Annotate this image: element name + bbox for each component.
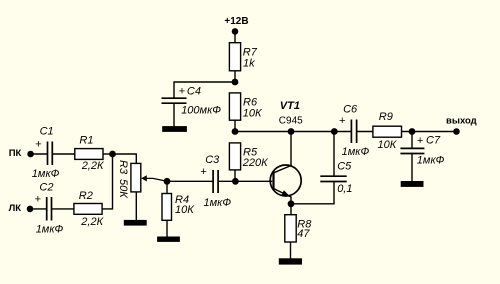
- svg-text:2,2К: 2,2К: [81, 160, 104, 172]
- wire emitter to R8: [290, 197, 292, 215]
- svg-text:ЛК: ЛК: [9, 203, 22, 214]
- svg-text:C4: C4: [187, 85, 201, 97]
- svg-text:+: +: [200, 166, 207, 178]
- node R7/R6/C4 junction: [232, 79, 239, 86]
- resistor R8: [285, 215, 296, 242]
- svg-text:+12В: +12В: [224, 16, 248, 27]
- svg-text:+: +: [35, 194, 42, 206]
- potentiometer R3 body: [131, 163, 141, 192]
- node collector rail junction: [288, 128, 295, 135]
- resistor R7: [229, 43, 240, 71]
- ground under C4: [162, 126, 187, 132]
- wire R6 to collector node: [234, 120, 236, 131]
- svg-text:1мкФ: 1мкФ: [342, 146, 370, 158]
- ground under R4: [157, 237, 180, 242]
- svg-text:+: +: [339, 115, 346, 127]
- wire C2 to R2: [52, 208, 74, 210]
- wire C6 to R9: [357, 131, 373, 133]
- svg-text:C3: C3: [205, 154, 220, 166]
- svg-text:C7: C7: [426, 135, 441, 147]
- node base junction: [232, 178, 239, 185]
- capacitor C5: [320, 176, 346, 181]
- svg-text:2,2К: 2,2К: [80, 216, 103, 228]
- svg-text:R6: R6: [243, 96, 258, 108]
- svg-text:VT1: VT1: [280, 100, 300, 112]
- capacitor C4: [162, 98, 187, 103]
- node input PK terminal: [27, 151, 34, 158]
- resistor R1: [75, 149, 103, 160]
- capacitor C2: [47, 197, 52, 221]
- wire R8 to ground: [290, 242, 292, 259]
- wire C7 to ground: [411, 154, 413, 182]
- node output/C7 junction: [409, 128, 416, 135]
- node input LK terminal: [27, 206, 34, 213]
- wire R2 up to mix node: [102, 154, 112, 209]
- resistor R9: [373, 126, 402, 137]
- svg-text:C945: C945: [279, 116, 303, 127]
- svg-text:10К: 10К: [175, 204, 194, 216]
- svg-text:+: +: [35, 139, 42, 151]
- wire R1 to mix node: [103, 153, 113, 155]
- wire collector rail: [235, 131, 351, 133]
- svg-text:C6: C6: [343, 104, 358, 116]
- svg-text:100мкФ: 100мкФ: [181, 104, 221, 116]
- wire R9 to output: [402, 131, 457, 133]
- svg-text:1мкФ: 1мкФ: [204, 197, 232, 209]
- wire C1 to R1: [52, 153, 75, 155]
- wire R5 to base node: [234, 170, 236, 181]
- transistor VT1: [270, 132, 301, 198]
- svg-text:+: +: [417, 135, 424, 147]
- wire mix node to R3 top: [113, 154, 137, 163]
- capacitor C1: [48, 142, 53, 166]
- svg-text:+: +: [179, 85, 186, 97]
- svg-text:1мкФ: 1мкФ: [36, 223, 64, 235]
- node wiper/R4 junction: [164, 178, 171, 185]
- wire emitter rail to C5: [291, 182, 334, 204]
- wire R7 to node: [234, 71, 236, 82]
- svg-text:0,1: 0,1: [337, 183, 352, 195]
- resistor R6: [229, 93, 240, 120]
- capacitor C6: [351, 120, 356, 144]
- svg-text:R1: R1: [79, 135, 93, 147]
- wire output node to C7: [411, 132, 413, 149]
- svg-text:1мкФ: 1мкФ: [417, 155, 445, 167]
- capacitor C7: [400, 148, 424, 153]
- svg-text:R2: R2: [79, 190, 93, 202]
- wire R3 bottom to ground: [135, 192, 137, 221]
- wire C5 top to collector rail: [333, 132, 335, 177]
- svg-text:1k: 1k: [243, 58, 255, 70]
- node emitter junction: [288, 200, 295, 207]
- svg-text:R9: R9: [379, 111, 393, 123]
- svg-text:1мкФ: 1мкФ: [32, 168, 60, 180]
- potentiometer R3 wiper arrow: [141, 175, 167, 181]
- wire +12V to R7: [234, 31, 236, 43]
- svg-text:выход: выход: [446, 115, 477, 126]
- ground under R3: [124, 220, 147, 226]
- svg-text:C5: C5: [337, 160, 352, 172]
- ground under R8: [279, 258, 302, 264]
- node R6/R5 collector junction: [232, 128, 239, 135]
- capacitor C3: [213, 170, 218, 193]
- node C5/collector rail junction: [331, 128, 338, 135]
- svg-text:ПК: ПК: [9, 148, 22, 159]
- svg-text:R7: R7: [243, 46, 258, 58]
- wire wiper node to C3: [167, 180, 213, 182]
- resistor R4: [162, 194, 172, 221]
- wire base rail C3 to transistor base: [218, 180, 272, 182]
- wire R4 to ground: [166, 220, 168, 237]
- node mix junction R1/R2/R3: [109, 151, 116, 158]
- svg-text:C2: C2: [39, 182, 53, 194]
- wire input PK to C1: [31, 153, 48, 155]
- svg-text:47: 47: [297, 228, 310, 240]
- node +12V terminal: [232, 28, 239, 35]
- wire wiper node to R4: [166, 181, 168, 193]
- node output terminal: [453, 128, 460, 135]
- svg-text:50К: 50К: [117, 179, 129, 198]
- ground under C7: [401, 181, 424, 187]
- svg-text:R3: R3: [117, 160, 129, 175]
- wire input LK to C2: [30, 208, 47, 210]
- wire top rail to C4: [174, 82, 235, 98]
- svg-text:220К: 220К: [242, 157, 268, 169]
- resistor R5: [229, 143, 240, 170]
- svg-text:10К: 10К: [243, 108, 262, 120]
- svg-text:C1: C1: [40, 126, 54, 138]
- svg-text:10К: 10К: [378, 139, 397, 151]
- resistor R2: [74, 204, 102, 215]
- wire C4 to ground: [173, 103, 175, 127]
